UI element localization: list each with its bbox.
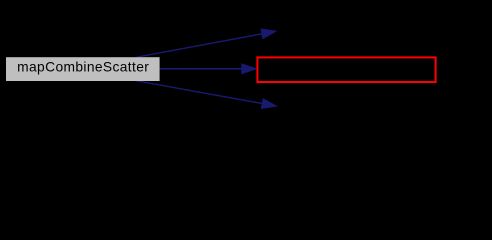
edge mapCombineScatter -> top callee node bbox=[137, 29, 276, 57]
node mapCombineScatter (current function, grey filled) bbox=[6, 57, 160, 81]
svg-text:mapCombineScatter: mapCombineScatter bbox=[17, 60, 149, 75]
arrowhead (middle edge) bbox=[242, 64, 257, 74]
node truncated callee (red border, empty interior) bbox=[257, 57, 435, 82]
wire (bottom edge line) bbox=[137, 81, 263, 104]
arrowhead (top edge) bbox=[261, 29, 276, 39]
arrowhead (bottom edge) bbox=[261, 99, 276, 109]
edge mapCombineScatter -> bottom callee node bbox=[137, 81, 277, 109]
edge mapCombineScatter -> middle callee node (red truncated node) bbox=[159, 64, 256, 74]
wire (middle edge line) bbox=[159, 68, 242, 70]
wire (top edge line) bbox=[137, 34, 262, 57]
